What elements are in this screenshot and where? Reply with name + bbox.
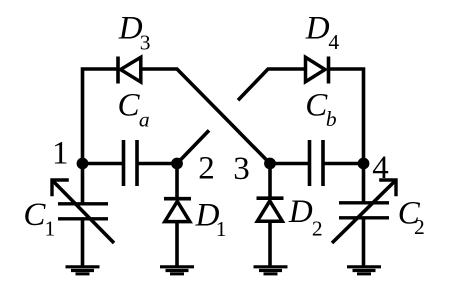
diode D3 xyxy=(118,57,141,84)
label C2 xyxy=(398,196,425,239)
capacitor Cb xyxy=(310,140,324,186)
label C1 xyxy=(23,197,55,240)
svg-text:D: D xyxy=(288,194,313,230)
ground (below C1) xyxy=(66,267,100,274)
wire C2 bottom plate to ground xyxy=(362,218,366,266)
arrow of variable capacitor C1 xyxy=(52,180,114,243)
wire node 3 down to D2 xyxy=(268,164,272,198)
label D2 xyxy=(288,194,323,240)
svg-text:C: C xyxy=(118,88,141,124)
svg-text:b: b xyxy=(326,107,337,131)
svg-text:C: C xyxy=(305,88,328,124)
wire Cb right plate to node 4 xyxy=(325,162,364,166)
wire D4 cathode to top-right corner and down right vertical to C2 top plate xyxy=(329,69,364,203)
wire node 1 to Ca left plate xyxy=(83,162,123,166)
ground (below D2) xyxy=(254,267,288,274)
node 4 xyxy=(358,158,370,170)
wire Ca right plate to node 2 xyxy=(139,162,178,166)
svg-text:D: D xyxy=(305,10,330,46)
diode D2 xyxy=(257,198,284,221)
wire diagonal upper segment (broken at crossing) to corner and D4 triangle xyxy=(238,69,305,100)
ground (below C2) xyxy=(347,267,381,274)
wire node 3 to Cb left plate xyxy=(270,162,308,166)
svg-text:2: 2 xyxy=(198,150,215,186)
label D3 xyxy=(118,10,151,54)
node label 1 xyxy=(52,135,69,171)
wire diagonal lower segment from node 2 up-right (broken at crossing) xyxy=(177,130,209,163)
svg-text:C: C xyxy=(23,197,46,233)
svg-text:2: 2 xyxy=(414,215,425,239)
svg-text:1: 1 xyxy=(216,217,227,241)
label Ca xyxy=(118,88,150,132)
diode D1 xyxy=(164,199,191,222)
wire node 2 down to D1 xyxy=(175,164,179,198)
node 3 xyxy=(264,158,276,170)
svg-text:a: a xyxy=(139,108,150,132)
node label 4 xyxy=(372,150,389,186)
svg-text:4: 4 xyxy=(328,30,339,54)
capacitor C2 (variable) xyxy=(339,203,389,218)
wire D1 anode to ground xyxy=(175,222,179,267)
wire C1 bottom plate to ground xyxy=(81,219,85,266)
label D1 xyxy=(195,198,227,241)
svg-text:2: 2 xyxy=(312,216,323,240)
capacitor C1 (variable) xyxy=(58,204,108,219)
node label 2 xyxy=(198,150,215,186)
node 1 xyxy=(77,158,89,170)
ground (below D1) xyxy=(160,267,194,274)
wire D3 anode to corner then diagonal down to node 3 xyxy=(141,69,270,164)
node label 3 xyxy=(233,151,250,187)
svg-text:4: 4 xyxy=(372,150,389,186)
label Cb xyxy=(305,88,337,131)
svg-text:1: 1 xyxy=(45,216,56,240)
svg-text:3: 3 xyxy=(140,31,151,55)
svg-text:3: 3 xyxy=(233,151,250,187)
wire left vertical with top-left corner to D3 cathode bar xyxy=(83,69,118,204)
label D4 xyxy=(305,10,340,54)
diode D4 xyxy=(306,57,329,84)
wire D2 anode to ground xyxy=(268,221,272,266)
svg-text:1: 1 xyxy=(52,135,69,171)
arrow of variable capacitor C2 xyxy=(332,180,396,243)
node 2 xyxy=(171,158,183,170)
capacitor Ca xyxy=(124,140,138,186)
